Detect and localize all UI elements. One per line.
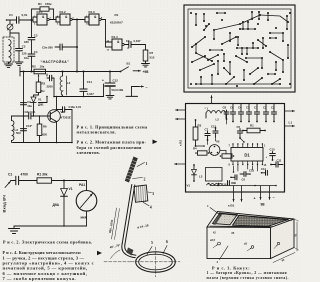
probe resistor R1 <box>37 172 52 183</box>
svg-text:L3: L3 <box>199 174 203 178</box>
svg-text:“НАСТРОЙКА”: “НАСТРОЙКА” <box>41 60 70 64</box>
handle grip <box>125 157 138 183</box>
svg-text:+: + <box>266 155 268 159</box>
shaft <box>122 185 135 245</box>
svg-text:R4: R4 <box>193 146 197 150</box>
layout capacitor C11b <box>270 158 283 167</box>
layout capacitor C13 <box>240 168 254 176</box>
wire R1 to D1.1 output <box>49 9 54 20</box>
capacitor C10 <box>16 124 33 135</box>
svg-text:0,047: 0,047 <box>134 39 141 43</box>
leader 4 <box>143 202 152 209</box>
regulator box <box>134 185 148 202</box>
layout down arrow +9 a <box>259 186 261 200</box>
layout coil L2 <box>206 111 226 122</box>
svg-text:180: 180 <box>24 40 29 44</box>
label 9V <box>261 203 266 207</box>
layout board frame <box>186 104 285 193</box>
case rim line <box>210 214 292 227</box>
search ring inner <box>139 254 173 270</box>
svg-text:2: 2 <box>144 178 146 182</box>
layout IC D1 <box>229 143 267 167</box>
label Vhod VCh <box>2 195 7 213</box>
layout resistor R5 <box>220 154 235 158</box>
svg-text:120: 120 <box>22 52 27 56</box>
wire base horizontal <box>12 115 29 117</box>
capacitor C12 electrolytic <box>102 72 123 96</box>
capacitor C3 on node column <box>24 20 38 44</box>
svg-text:10н: 10н <box>27 104 32 108</box>
svg-text:С11: С11 <box>277 158 282 162</box>
svg-text:4: 4 <box>150 206 152 210</box>
svg-text:+: + <box>254 197 256 201</box>
PCB traces lower left <box>191 43 281 85</box>
capacitor C2 <box>16 33 27 62</box>
svg-text:Вход ВЧ: Вход ВЧ <box>2 195 7 213</box>
svg-text:С8: С8 <box>223 106 227 110</box>
svg-text:металлоискателя.: металлоискателя. <box>77 130 117 135</box>
ring centerline h <box>131 261 180 263</box>
wire collector up <box>56 96 58 111</box>
svg-text:С13н 0,01: С13н 0,01 <box>69 105 82 109</box>
layout capacitor C8 <box>223 106 229 120</box>
resistor R3 <box>36 80 45 93</box>
svg-text:ø3,5: ø3,5 <box>210 239 216 242</box>
layout IC pin drops <box>238 165 258 172</box>
op-amp D1.4 gate <box>108 35 127 50</box>
probe wire meter down <box>86 211 88 226</box>
wire bottom rail <box>13 142 73 144</box>
wire emitter down <box>56 122 58 144</box>
wire node B to rail <box>76 47 78 73</box>
terminal plus 9V <box>133 70 149 74</box>
svg-text:С5н 260: С5н 260 <box>42 46 53 50</box>
svg-text:V1: V1 <box>38 98 42 102</box>
node A junction <box>31 19 33 21</box>
svg-text:R1 30к: R1 30к <box>37 172 48 176</box>
op-amp D1.1 gate <box>33 10 52 25</box>
capacitor C1 <box>9 13 28 23</box>
trimmer capacitor C2a <box>7 20 13 33</box>
wire C4 to rail <box>31 56 33 72</box>
caption fig2 <box>77 140 147 155</box>
layout down arrow kB1 b <box>240 186 242 202</box>
probe meter PA1 <box>76 183 97 219</box>
label L1 <box>289 121 293 125</box>
switch B1 <box>120 62 131 73</box>
svg-text:В1: В1 <box>127 62 131 66</box>
wire cap to base <box>31 115 50 117</box>
dim diameter 14-18 <box>137 223 149 229</box>
svg-text:С6: С6 <box>242 177 246 181</box>
label k R2 <box>179 140 183 146</box>
PCB corner pads <box>190 12 291 87</box>
layout bottom bus <box>210 185 277 187</box>
wire C6 to R7 <box>131 45 146 51</box>
svg-text:9В: 9В <box>261 203 266 207</box>
svg-text:10к: 10к <box>40 65 45 69</box>
wire V1 node link <box>39 96 48 103</box>
case top face <box>207 212 294 228</box>
svg-text:D1.1: D1.1 <box>37 10 43 14</box>
layout arrow up <box>205 96 213 111</box>
probe input arrow <box>5 181 11 187</box>
svg-text:L1: L1 <box>289 121 293 125</box>
svg-text:10н: 10н <box>24 56 29 60</box>
svg-text:R1: R1 <box>250 124 254 128</box>
probe wire node-meter <box>64 181 87 191</box>
svg-text:L2: L2 <box>67 81 71 85</box>
svg-text:С1: С1 <box>8 172 12 176</box>
svg-text:0,01: 0,01 <box>22 13 28 17</box>
svg-text:С3: С3 <box>34 34 38 38</box>
wire C1 to node A <box>19 19 32 21</box>
leader 3 <box>148 192 154 196</box>
case side mark <box>274 242 280 248</box>
bracket at ring <box>127 248 134 256</box>
svg-text:L3: L3 <box>15 128 19 132</box>
svg-text:0,047: 0,047 <box>87 92 94 96</box>
svg-text:Д9Б: Д9Б <box>38 103 44 107</box>
layout resistor R4 <box>193 146 209 155</box>
layout capacitor C15 <box>211 124 218 137</box>
case battery stipple <box>213 214 238 225</box>
resistor R1 <box>38 2 52 11</box>
svg-text:V1: V1 <box>187 183 191 187</box>
svg-text:R6: R6 <box>43 125 47 129</box>
layout resistor R1 <box>242 124 266 133</box>
probe diode V1 <box>53 181 73 227</box>
resistor R6 <box>37 115 47 142</box>
op-amp D1.2 gate <box>56 10 75 25</box>
layout coil L3 <box>199 168 223 186</box>
capacitor C13 bypass <box>56 105 82 144</box>
inductor L3 <box>12 116 19 143</box>
svg-text:РА1: РА1 <box>79 183 85 187</box>
capacitor C8 series <box>25 110 37 119</box>
layout V2-IC link <box>220 151 226 155</box>
svg-text:V2: V2 <box>216 140 220 144</box>
svg-text:1 — батарея «Крона», 2 — мон: 1 — батарея «Крона», 2 — монтажная <box>207 271 287 275</box>
svg-text:30к: 30к <box>40 89 45 93</box>
svg-text:150к: 150к <box>45 2 52 6</box>
svg-text:+: + <box>102 79 104 83</box>
svg-text:Д9А: Д9А <box>53 203 60 207</box>
svg-text:С11: С11 <box>87 80 93 84</box>
probe wire R1-node <box>52 180 66 182</box>
shaft to ring curve <box>122 244 136 258</box>
case board stipple <box>233 215 289 226</box>
PCB inner frame <box>188 9 291 88</box>
svg-text:С12: С12 <box>113 78 119 82</box>
caption fig4 block <box>3 250 95 281</box>
caption fig case <box>207 265 289 280</box>
svg-text:+9В: +9В <box>143 70 150 74</box>
ground under C2 <box>15 62 23 65</box>
svg-text:−: − <box>273 196 275 200</box>
svg-text:к В1: к В1 <box>228 204 235 208</box>
svg-text:510: 510 <box>150 56 155 60</box>
wire node B drop <box>76 20 78 48</box>
svg-text:R1: R1 <box>38 2 42 6</box>
probe bottom rail <box>14 225 87 227</box>
svg-text:V1: V1 <box>69 187 73 191</box>
wire node A feedback up <box>32 9 41 20</box>
leader 1 <box>137 162 148 167</box>
wire supply rail <box>20 67 121 76</box>
wire L1 to ground <box>8 62 10 64</box>
ring centerline v <box>155 247 157 277</box>
dashed angle baseline <box>104 261 131 263</box>
wire trimmer to L1 <box>10 33 19 37</box>
case dim right <box>294 219 299 251</box>
wire R7 to ground <box>145 61 147 64</box>
terminal minus <box>126 85 148 96</box>
layout stub wires <box>196 119 253 173</box>
svg-text:R2: R2 <box>32 65 36 69</box>
svg-text:Р и с. 2. Электрическая схе: Р и с. 2. Электрическая схема пробника. <box>3 240 92 245</box>
ground under R7 <box>142 64 150 67</box>
op-amp D1.3 gate <box>85 10 104 25</box>
PCB traces lower right <box>235 42 289 85</box>
wire input to C1 <box>6 19 16 21</box>
capacitor C4 on node column <box>24 40 38 61</box>
ground under L1 <box>5 64 13 67</box>
wire D1.4 in stubs <box>106 42 113 47</box>
case leader 1 <box>207 204 221 216</box>
leader 6 <box>163 240 168 254</box>
capacitor C9 <box>21 100 33 108</box>
potentiometer R2 <box>32 65 46 74</box>
case dim top mark <box>213 232 235 236</box>
PCB outer frame <box>184 5 295 92</box>
layout arrow left 2 <box>176 118 186 120</box>
label minus <box>273 196 275 200</box>
wire D1.4 output <box>127 44 129 46</box>
layout transistor V2 <box>209 140 220 156</box>
svg-text:С6: С6 <box>126 39 130 43</box>
case dim bottom <box>273 253 295 263</box>
case right face <box>271 219 295 259</box>
svg-text:элементов.: элементов. <box>77 150 101 155</box>
dim angle 45-75 <box>109 243 120 259</box>
svg-text:D1: D1 <box>115 13 119 17</box>
layout capacitor C5 <box>237 125 243 139</box>
label k B1 <box>228 204 235 208</box>
layout capacitor C10b <box>222 181 236 187</box>
leader 5 <box>147 241 153 255</box>
svg-text:D1.4: D1.4 <box>112 35 118 39</box>
layout capacitor C7 <box>205 128 211 141</box>
svg-text:L2: L2 <box>216 118 220 122</box>
svg-text:Р и с. 3. Кожух:: Р и с. 3. Кожух: <box>212 265 250 270</box>
svg-text:К155ЛА7: К155ЛА7 <box>110 21 123 25</box>
wire tank bottom <box>53 78 62 97</box>
svg-text:5: 5 <box>151 241 153 245</box>
wire D1.2 to D1.3 <box>75 17 90 22</box>
svg-text:С4: С4 <box>34 50 38 54</box>
svg-text:1: 1 <box>146 162 148 166</box>
probe wire top <box>11 180 16 182</box>
svg-text:4700: 4700 <box>21 172 29 176</box>
search ring outer <box>136 252 176 272</box>
svg-text:* 1: * 1 <box>205 107 209 111</box>
label nastroyka <box>41 60 70 64</box>
wire D1.3 to D1.4 <box>104 20 106 48</box>
svg-text:D1: D1 <box>244 153 250 158</box>
svg-text:Р и с. 1. Принципиальная: Р и с. 1. Принципиальная схема <box>77 124 148 129</box>
capacitor C7 tank <box>47 74 55 89</box>
caption probe fig <box>3 240 92 245</box>
diode V1 zener <box>31 93 44 117</box>
case hole right <box>244 243 254 252</box>
svg-text:3: 3 <box>152 192 154 196</box>
inductor L1 shield box <box>3 37 14 62</box>
ground under C12 <box>106 96 114 99</box>
layout down arrow -9 b <box>268 186 270 200</box>
wire L2 top <box>62 71 64 77</box>
layout diode V1 <box>187 164 197 187</box>
svg-text:КТ301Е: КТ301Е <box>61 115 71 119</box>
case back corner shading <box>213 213 238 225</box>
svg-text:R7: R7 <box>150 51 154 55</box>
layout capacitor C12 <box>266 148 276 161</box>
svg-text:к R2: к R2 <box>179 140 183 146</box>
svg-text:R3: R3 <box>42 81 46 85</box>
case leader 2 <box>217 246 229 264</box>
svg-text:плата (верхняя стенка условно: плата (верхняя стенка условно снята). <box>207 276 289 280</box>
node C12 junction <box>109 71 111 73</box>
wire decoupling vertical <box>23 71 25 143</box>
svg-text:С1: С1 <box>9 13 13 17</box>
layout arrow left 1 <box>176 109 186 111</box>
caption fig4 arrow <box>97 251 102 255</box>
svg-text:D1.3: D1.3 <box>89 10 95 14</box>
wire mid horizontal <box>54 84 104 97</box>
wire D1.1 inputs <box>32 17 34 22</box>
layout resistor R3 <box>193 119 201 147</box>
svg-text:D1.2: D1.2 <box>60 10 66 14</box>
PCB traces upper left <box>191 12 241 48</box>
wire D1.1 to D1.2 <box>52 17 61 22</box>
probe ground <box>9 226 20 234</box>
PCB traces upper right <box>239 11 289 49</box>
case speckle pattern def <box>0 0 1 1</box>
dim 850-1000 <box>108 208 120 240</box>
label + <box>254 197 256 201</box>
svg-text:50,0×10В: 50,0×10В <box>112 88 124 92</box>
layout arrow right 1 <box>285 110 295 112</box>
layout down arrow kB1 a <box>232 186 234 202</box>
transistor V3 <box>48 110 71 123</box>
R2 wiper arrow <box>38 75 40 80</box>
case hole front <box>210 239 220 248</box>
svg-text:−: − <box>146 86 148 90</box>
label D1 type <box>110 13 123 25</box>
capacitor C11 <box>80 76 94 97</box>
svg-text:С12: С12 <box>270 148 276 152</box>
case front face <box>207 227 271 259</box>
svg-text:6: 6 <box>166 240 168 244</box>
probe capacitor C1 <box>8 172 28 184</box>
svg-text:С2: С2 <box>22 45 26 49</box>
svg-text:С10*: С10* <box>26 124 33 128</box>
svg-text:С8н 0,01: С8н 0,01 <box>25 110 37 114</box>
svg-text:7 — скоба крепления кожуха.: 7 — скоба крепления кожуха. <box>3 276 77 281</box>
svg-text:С13: С13 <box>249 168 254 172</box>
wire C11 stem <box>83 71 85 77</box>
capacitor C6 <box>126 39 141 48</box>
capacitor C5 coupling <box>42 44 78 50</box>
gate pin numbers <box>34 15 130 52</box>
layout capacitor C14 <box>261 167 268 175</box>
caption fig2 arrow <box>153 140 158 145</box>
layout arrow left 3 <box>175 163 186 165</box>
resistor R7 <box>143 50 155 61</box>
inductor L1 coil <box>9 40 12 63</box>
node B junction <box>76 19 78 21</box>
caption fig1 <box>77 124 148 134</box>
svg-text:2200: 2200 <box>47 85 54 89</box>
layout capacitor C6b <box>230 175 245 182</box>
layout arrow right 2 <box>285 125 295 127</box>
svg-text:620: 620 <box>43 132 48 136</box>
leader 2 <box>133 178 146 182</box>
probe wire C1-R1 <box>19 180 37 182</box>
inductor L2 <box>60 76 70 95</box>
layout capacitor row C9 C4 C3 C1 C2 C2 <box>230 104 277 123</box>
